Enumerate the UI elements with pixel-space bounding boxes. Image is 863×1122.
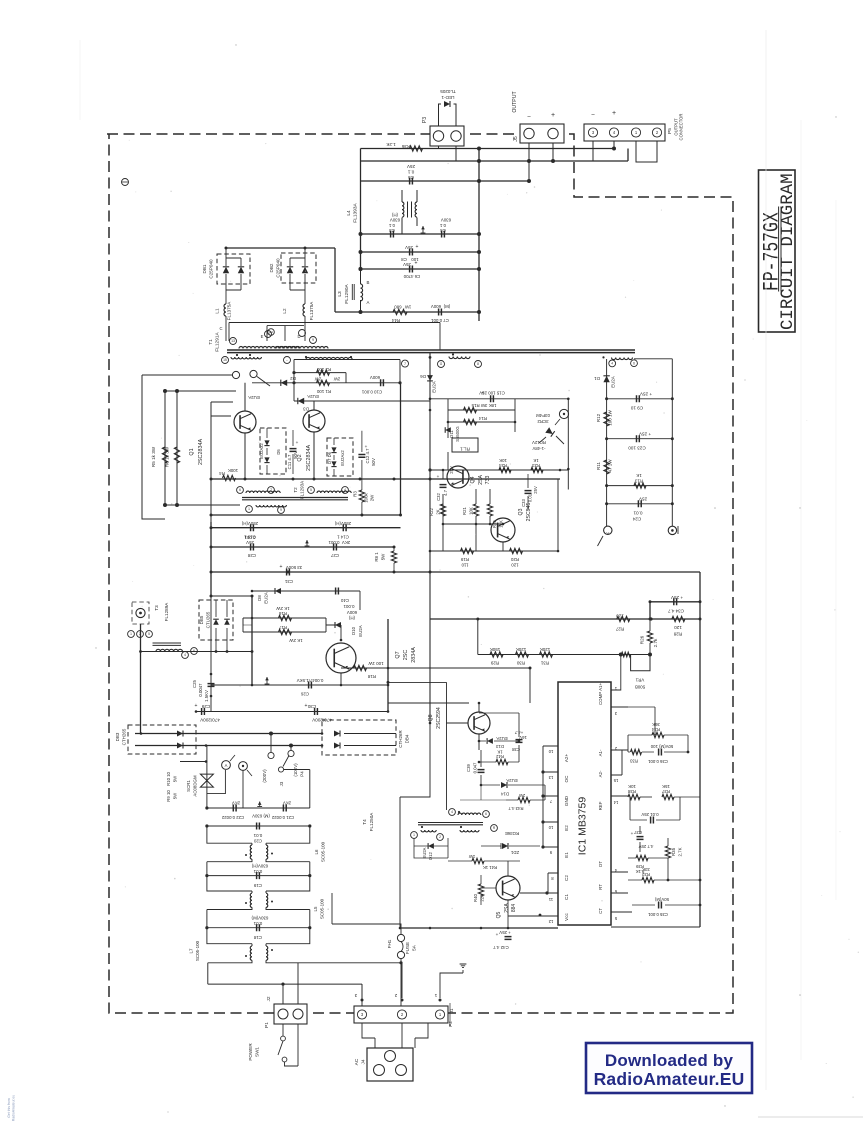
svg-text:11: 11 <box>548 897 553 902</box>
transistor Q5 <box>496 876 520 918</box>
wire <box>142 375 233 519</box>
svg-text:110: 110 <box>461 563 469 568</box>
svg-text:+ 25V: + 25V <box>638 432 651 437</box>
resistor R5 <box>151 446 168 467</box>
resistor R6 <box>165 446 180 467</box>
svg-text:+: + <box>195 703 198 709</box>
svg-text:C42 4.7: C42 4.7 <box>493 945 509 950</box>
svg-text:R2 100: R2 100 <box>316 367 331 372</box>
svg-text:C25P040: C25P040 <box>209 259 214 279</box>
transistor Q7 <box>326 643 417 673</box>
svg-text:4: 4 <box>451 810 453 814</box>
svg-text:0.01: 0.01 <box>633 511 642 516</box>
svg-text:12: 12 <box>548 919 553 924</box>
svg-text:4: 4 <box>184 653 186 657</box>
svg-text:GND: GND <box>564 795 569 806</box>
svg-text:10: 10 <box>548 825 553 830</box>
svg-text:2SC: 2SC <box>403 650 409 661</box>
transformer T1 secondary box <box>284 357 409 402</box>
svg-text:C8: C8 <box>401 257 407 262</box>
resistor R43 <box>506 793 545 811</box>
svg-text:1K: 1K <box>636 473 642 478</box>
resistor R29 <box>490 647 503 666</box>
svg-text:+: + <box>482 391 485 397</box>
wire <box>430 618 700 620</box>
svg-text:R33: R33 <box>629 759 637 764</box>
svg-text:D6: D6 <box>420 374 426 379</box>
svg-text:C20: C20 <box>253 839 262 844</box>
svg-text:9: 9 <box>280 508 282 512</box>
svg-text:D14: D14 <box>500 792 508 797</box>
capacitor C10 <box>361 375 383 395</box>
svg-text:3: 3 <box>354 993 357 998</box>
transformer T1 secondary windings <box>222 353 638 367</box>
svg-text:0.001: 0.001 <box>328 540 340 545</box>
svg-text:C14 1: C14 1 <box>337 535 349 540</box>
capacitor C22 <box>221 801 244 821</box>
transformer T1 core <box>227 350 635 353</box>
terminal G2 <box>555 409 569 425</box>
svg-text:FL1375A: FL1375A <box>309 301 314 321</box>
svg-text:DB4: DB4 <box>405 734 410 743</box>
junction <box>139 650 253 653</box>
svg-text:150K: 150K <box>490 647 501 652</box>
svg-text:OC: OC <box>564 775 569 783</box>
border frame (dashed) <box>107 134 733 1013</box>
svg-text:2SC2834A: 2SC2834A <box>306 445 312 471</box>
wire <box>611 926 700 928</box>
resistor R21 <box>462 504 479 516</box>
dual diode D7 D6 <box>327 438 353 476</box>
svg-text:25V: 25V <box>638 497 647 502</box>
wire <box>593 141 657 162</box>
svg-text:+: + <box>305 703 308 709</box>
inductor L6 <box>207 826 326 876</box>
svg-text:L1: L1 <box>215 308 220 314</box>
terminal A <box>598 526 613 546</box>
junction <box>281 961 402 986</box>
capacitor C30 <box>305 703 332 723</box>
svg-text:600V: 600V <box>347 610 357 615</box>
svg-text:FL1289A: FL1289A <box>164 602 169 622</box>
svg-text:18K 3W R15: 18K 3W R15 <box>471 403 496 408</box>
svg-text:13: 13 <box>548 775 553 780</box>
wire <box>361 180 530 182</box>
capacitor C33 <box>521 474 538 510</box>
svg-text:FH1: FH1 <box>387 939 392 948</box>
svg-text:C36 0.001: C36 0.001 <box>647 759 667 764</box>
svg-text:(200V): (200V) <box>262 769 267 783</box>
ground <box>305 540 310 546</box>
svg-text:AC: AC <box>354 1058 360 1065</box>
transformer T1 label <box>208 331 221 351</box>
wire <box>478 149 480 322</box>
svg-text:Downloaded by: Downloaded by <box>605 1051 734 1070</box>
svg-text:J5: J5 <box>513 136 519 142</box>
transformer L4 <box>346 190 417 234</box>
connector P5 <box>584 110 684 141</box>
svg-text:T2: T2 <box>293 487 298 493</box>
svg-text:2K: 2K <box>436 509 441 514</box>
svg-text:FL1293A: FL1293A <box>300 481 305 499</box>
capacitor C5 <box>406 164 415 185</box>
svg-text:8: 8 <box>477 362 479 366</box>
resistor R31 <box>540 647 553 666</box>
svg-text:0.001: 0.001 <box>244 535 256 540</box>
wire <box>335 311 479 313</box>
svg-text:(M): (M) <box>443 304 450 309</box>
resistor R2 <box>294 367 346 383</box>
svg-text:9: 9 <box>312 338 314 342</box>
svg-text:R20: R20 <box>510 557 519 562</box>
transistor Q1 <box>189 411 256 465</box>
svg-text:0.01 25V: 0.01 25V <box>641 812 658 817</box>
svg-text:0.01: 0.01 <box>253 833 262 838</box>
wire <box>211 383 560 515</box>
svg-text:630V: 630V <box>441 218 451 223</box>
svg-text:7: 7 <box>270 488 272 492</box>
junction <box>429 702 521 787</box>
svg-text:+ 25V: + 25V <box>670 595 683 600</box>
diode D2 <box>248 376 296 400</box>
svg-text:D8: D8 <box>257 595 262 601</box>
wire <box>140 624 142 734</box>
svg-text:C5: C5 <box>408 175 414 180</box>
svg-text:10K: 10K <box>628 784 636 789</box>
svg-text:COMP A1+: COMP A1+ <box>598 683 603 705</box>
svg-text:R36: R36 <box>401 144 410 149</box>
svg-text:+: + <box>631 831 634 836</box>
resistor R28 <box>672 616 685 636</box>
op-amp U1 IC1 MB3759 <box>558 682 611 925</box>
capacitor C9 <box>607 392 673 411</box>
svg-text:RadioAmateur.EU: RadioAmateur.EU <box>594 1069 745 1089</box>
junction <box>225 247 307 250</box>
svg-text:EU2A: EU2A <box>611 376 616 388</box>
svg-text:D7 D6: D7 D6 <box>327 451 332 464</box>
svg-text:C25: C25 <box>192 679 197 687</box>
svg-text:EU2A: EU2A <box>432 381 437 393</box>
potentiometer VR1 <box>611 652 652 690</box>
svg-text:A2+: A2+ <box>564 754 569 763</box>
thyristor SCR1 <box>166 771 213 801</box>
capacitor C19 <box>205 864 311 889</box>
svg-text:(H): (H) <box>391 213 398 218</box>
junction <box>605 397 674 505</box>
svg-text:5W: 5W <box>173 775 178 782</box>
svg-text:C1: C1 <box>564 894 569 900</box>
resistor R36 <box>385 142 422 151</box>
svg-text:DT: DT <box>598 861 603 867</box>
svg-text:A1-: A1- <box>598 749 603 756</box>
diode ZD1 <box>481 843 540 855</box>
wire <box>430 550 558 552</box>
diode D1 <box>594 376 616 388</box>
resistor R13 <box>634 473 646 488</box>
svg-text:R8 1: R8 1 <box>374 552 379 562</box>
rectifier DB4 <box>322 720 410 755</box>
svg-text:0.0047: 0.0047 <box>198 683 203 697</box>
svg-text:TL0205: TL0205 <box>440 89 456 94</box>
svg-text:+: + <box>280 564 283 570</box>
svg-text:R6 1k 3W: R6 1k 3W <box>165 446 170 467</box>
resistor R19 <box>460 548 473 567</box>
svg-text:884: 884 <box>511 904 517 913</box>
svg-text:4: 4 <box>611 362 613 366</box>
watermark box <box>586 1043 752 1093</box>
transformer T4 <box>362 809 497 841</box>
wire <box>448 399 564 470</box>
junction <box>477 147 616 184</box>
svg-text:FL1375A: FL1375A <box>227 301 232 321</box>
capacitor C15 <box>479 391 505 403</box>
svg-text:D3: D3 <box>303 407 309 412</box>
svg-text:L4: L4 <box>346 210 352 216</box>
switch contacts T1 <box>232 370 270 386</box>
terminal L <box>132 602 149 624</box>
wire <box>443 470 503 551</box>
svg-text:Q5: Q5 <box>496 911 502 918</box>
svg-text:2W: 2W <box>333 377 340 382</box>
wire <box>650 602 700 619</box>
svg-text:R31: R31 <box>540 661 549 666</box>
IC1 right pin labels <box>598 683 603 914</box>
svg-text:C29: C29 <box>201 704 210 709</box>
svg-text:EU2A: EU2A <box>506 778 517 783</box>
svg-text:C35 0.001: C35 0.001 <box>647 912 667 917</box>
svg-text:+: + <box>365 444 368 449</box>
resistor R25 <box>487 504 503 528</box>
wire <box>141 651 253 653</box>
resistor R35 <box>665 838 682 880</box>
wire <box>226 248 335 312</box>
switch J3 <box>262 732 305 787</box>
wire <box>388 682 468 810</box>
transformer T2 <box>237 481 352 514</box>
svg-text:R10 10: R10 10 <box>166 771 171 785</box>
svg-text:10K: 10K <box>499 458 507 463</box>
wire <box>211 402 233 596</box>
svg-text:120: 120 <box>616 614 624 619</box>
wire <box>211 684 388 686</box>
capacitor C8 <box>401 244 419 262</box>
svg-text:+: + <box>415 261 418 267</box>
resistor R44 <box>391 305 411 324</box>
svg-text:1K: 1K <box>497 750 502 755</box>
svg-text:600V: 600V <box>370 375 380 380</box>
svg-text:A: A <box>225 763 228 768</box>
svg-text:C32: C32 <box>436 492 441 500</box>
resistor R38 <box>627 784 652 800</box>
svg-text:C18: C18 <box>253 935 262 940</box>
svg-text:470/200V: 470/200V <box>199 718 220 723</box>
svg-text:Q3: Q3 <box>518 508 524 515</box>
svg-text:RL.1: RL.1 <box>460 447 470 452</box>
relay RL1 <box>452 438 478 452</box>
ground <box>421 226 426 233</box>
diode D14 <box>481 778 545 800</box>
svg-text:L7: L7 <box>189 948 194 954</box>
svg-text:0.1: 0.1 <box>388 223 395 228</box>
wire <box>332 893 401 1006</box>
svg-text:100K: 100K <box>228 468 238 473</box>
connector P3 <box>422 117 464 146</box>
svg-text:D13: D13 <box>495 744 503 749</box>
svg-text:2: 2 <box>394 993 397 998</box>
svg-text:C40: C40 <box>340 598 349 603</box>
junction <box>387 600 702 684</box>
wire <box>361 148 615 150</box>
svg-text:P2: P2 <box>448 1021 453 1027</box>
svg-text:250V(H): 250V(H) <box>334 521 351 526</box>
wire <box>361 233 480 235</box>
rectifier DB3 <box>115 725 196 754</box>
svg-text:DB1: DB1 <box>202 264 207 273</box>
svg-text:D10: D10 <box>351 626 356 635</box>
svg-text:CIRCUIT DIAGRAM: CIRCUIT DIAGRAM <box>779 173 798 330</box>
svg-text:5: 5 <box>310 488 312 492</box>
svg-text:C37: C37 <box>633 830 641 835</box>
capacitor C26 <box>297 678 324 697</box>
dual diode D5 <box>259 428 286 474</box>
wire <box>430 398 568 400</box>
resistor R3 <box>353 479 375 515</box>
inductor L7 <box>189 928 310 1004</box>
resistor R8 <box>374 547 397 572</box>
svg-text:C2: C2 <box>564 875 569 881</box>
svg-text:1: 1 <box>413 833 415 837</box>
svg-text:IC1 MB3759: IC1 MB3759 <box>577 797 589 856</box>
svg-text:+: + <box>551 112 555 119</box>
wire <box>208 963 401 1006</box>
svg-text:CT: CT <box>598 908 603 914</box>
svg-text:B: B <box>367 280 370 285</box>
LED LED-1 TL0205 <box>439 89 457 126</box>
wire <box>180 746 310 809</box>
svg-text:L3: L3 <box>337 291 343 297</box>
svg-text:0.001: 0.001 <box>343 604 355 609</box>
svg-text:630V(M): 630V(M) <box>251 916 268 921</box>
svg-text:0.047: 0.047 <box>473 762 478 773</box>
connector J1 P2 <box>354 993 454 1027</box>
capacitor C12 <box>358 431 376 479</box>
wire <box>205 806 311 827</box>
svg-text:2SC2834A: 2SC2834A <box>198 439 204 465</box>
svg-text:R11: R11 <box>596 462 601 470</box>
capacitor C32 <box>0 0 1 1</box>
svg-text:R18: R18 <box>367 674 376 679</box>
svg-text:SC05-100: SC05-100 <box>320 898 325 919</box>
svg-text:1K 2W: 1K 2W <box>289 638 303 643</box>
svg-text:A: A <box>606 531 609 536</box>
svg-text:0.1: 0.1 <box>407 170 414 175</box>
svg-text:2SC2594: 2SC2594 <box>436 707 442 729</box>
svg-text:+: + <box>437 474 440 479</box>
capacitor C35 <box>632 897 700 917</box>
svg-text:FL1290A: FL1290A <box>344 283 350 303</box>
svg-text:5W: 5W <box>173 792 178 799</box>
wire <box>607 359 673 527</box>
wire <box>439 146 457 161</box>
svg-text:220: 220 <box>480 894 485 902</box>
wire <box>557 479 559 551</box>
svg-text:R19: R19 <box>460 557 469 562</box>
inductor L3 <box>337 269 370 312</box>
svg-text:Q4: Q4 <box>470 476 476 483</box>
svg-text:R22: R22 <box>429 507 434 515</box>
svg-text:2834A: 2834A <box>411 647 417 663</box>
svg-text:Get this from: Get this from <box>7 1098 11 1118</box>
wire <box>481 861 508 928</box>
junction <box>210 514 432 598</box>
svg-text:600V: 600V <box>431 304 441 309</box>
svg-text:S5500G: S5500G <box>455 426 460 441</box>
svg-text:2: 2 <box>139 632 141 636</box>
wire <box>388 702 469 704</box>
svg-text:D2: D2 <box>290 376 296 381</box>
svg-text:500B: 500B <box>635 685 645 690</box>
capacitor C3 <box>388 213 400 238</box>
resistor R32 <box>628 867 700 883</box>
inductor L2 <box>282 301 314 341</box>
title block box <box>759 170 796 332</box>
svg-text:2KV: 2KV <box>342 540 350 545</box>
wire <box>211 527 401 529</box>
svg-text:680: 680 <box>394 305 402 310</box>
resistor R34 <box>628 722 688 752</box>
svg-text:SCR1: SCR1 <box>186 780 191 792</box>
svg-text:100 1W: 100 1W <box>368 661 384 666</box>
svg-text:T4: T4 <box>362 819 367 825</box>
svg-text:+: + <box>416 244 419 250</box>
resistor R37 <box>661 784 700 800</box>
inductor L1 <box>215 301 232 341</box>
svg-text:R1 100: R1 100 <box>316 389 331 394</box>
capacitor C11 <box>287 430 299 474</box>
svg-text:J2: J2 <box>266 996 272 1001</box>
svg-text:R43 4.7: R43 4.7 <box>508 806 524 811</box>
svg-text:R13: R13 <box>634 479 643 484</box>
svg-text:POWER: POWER <box>248 1043 253 1061</box>
svg-text:R5 1k 3W: R5 1k 3W <box>151 446 156 467</box>
svg-text:EU2A: EU2A <box>422 847 427 858</box>
wire <box>699 572 701 927</box>
svg-text:D11: D11 <box>449 430 454 438</box>
wire <box>361 268 480 270</box>
junction <box>539 751 702 917</box>
resistor R12 <box>596 409 613 426</box>
svg-text:(M) 630V: (M) 630V <box>252 814 270 819</box>
wire <box>211 479 394 547</box>
svg-text:E1: E1 <box>564 852 569 858</box>
svg-text:T1: T1 <box>208 339 214 345</box>
svg-text:C10 0.001: C10 0.001 <box>361 390 382 395</box>
svg-text:C11 4.7: C11 4.7 <box>287 454 292 469</box>
svg-text:1: 1 <box>130 632 132 636</box>
svg-text:15K: 15K <box>662 784 670 789</box>
svg-text:RadioAmateur.eu: RadioAmateur.eu <box>12 1095 16 1121</box>
svg-text:2SA: 2SA <box>504 903 510 913</box>
svg-text:−: − <box>591 112 595 119</box>
svg-text:R3: R3 <box>353 491 358 497</box>
svg-text:0.01: 0.01 <box>253 869 262 874</box>
switch SW1 POWER <box>248 1024 298 1066</box>
wire <box>245 383 314 479</box>
svg-text:50V(M): 50V(M) <box>654 897 669 902</box>
wire <box>207 770 243 808</box>
svg-text:C12 4.7: C12 4.7 <box>365 448 370 464</box>
svg-text:SC05-100: SC05-100 <box>195 940 200 961</box>
